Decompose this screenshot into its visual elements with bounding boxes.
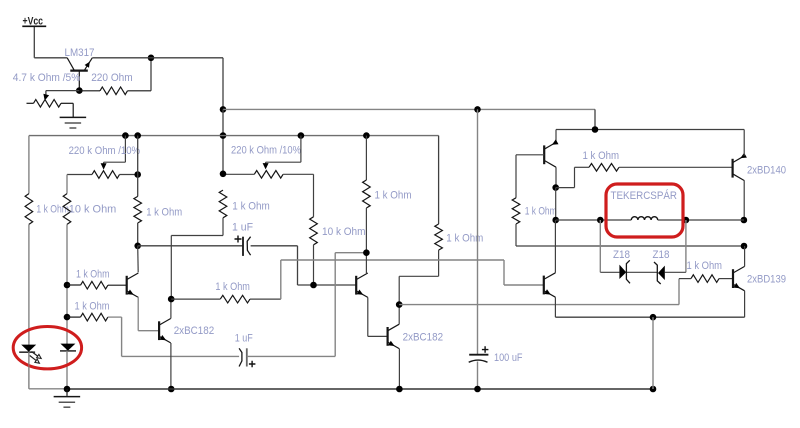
node B [363, 249, 370, 256]
node output rail junction [148, 55, 155, 62]
transistor Q6 BD139 NPN [732, 269, 734, 288]
wire y=246 rail C1 to Q3 base [138, 245, 243, 247]
wire Vcc to LM317 input [34, 57, 67, 59]
wire pot1 left to 10k [66, 175, 68, 194]
LED D1 light arrows [30, 352, 38, 361]
svg-text:10 k Ohm: 10 k Ohm [322, 226, 366, 238]
regulator U1 LM317 (transistor-style symbol) [70, 69, 88, 71]
node pot1 wiper tap [122, 132, 129, 139]
svg-text:1 k Ohm: 1 k Ohm [232, 200, 269, 212]
node R6 bottom / C1 node [134, 243, 141, 250]
wire coil rail [556, 219, 632, 221]
wire left bias rail y=135.6 [29, 135, 439, 137]
wire pot2 wiper arm [300, 136, 302, 163]
node Q7 collector node [552, 184, 559, 191]
wire R8 bottom jog to node A [171, 235, 223, 237]
wire ground rail [28, 343, 30, 345]
wire Q7 collector down [555, 167, 557, 187]
zener Z2 Z18 [658, 266, 665, 280]
node ground rail right end [650, 386, 657, 393]
svg-text:1 k Ohm: 1 k Ohm [583, 150, 620, 162]
resistor R5 10 k Ohm (x=67) [63, 194, 71, 225]
wire rail y=260 to Q8 base [281, 259, 504, 261]
svg-text:TEKERCSPÁR: TEKERCSPÁR [611, 189, 678, 202]
node y129 tap [592, 126, 599, 133]
resistor R16 1 k Ohm (BD140 base) [575, 166, 590, 168]
node x223 on rail y135 [220, 132, 227, 139]
svg-text:1 k Ohm: 1 k Ohm [146, 207, 182, 219]
wire emitter rail y=317.2 [555, 316, 744, 318]
resistor R10 1 k Ohm (x=366.4) [365, 136, 367, 180]
wire coil right [658, 219, 744, 221]
svg-text:1 k Ohm: 1 k Ohm [76, 268, 110, 280]
wire Q3 emitter to Q4 base [367, 297, 369, 336]
capacitor C1 1 uF [242, 237, 244, 256]
wire top rail [223, 108, 595, 110]
annotation red rounded rect TEKERCSPAR [606, 184, 683, 237]
wire Q8 collector up to coil rail [554, 220, 556, 273]
resistor R8 1 k Ohm (x=223) [219, 190, 227, 218]
transistor Q2 BC182 (second) [158, 321, 160, 340]
resistor R12 1 k Ohm (to Q1 base) [67, 284, 81, 286]
wire zener drop left [599, 220, 601, 272]
wire BD140 emitter up [743, 130, 745, 156]
wire 100uF from top rail [477, 109, 479, 354]
resistor R11 1 k Ohm (x=438.6) [435, 224, 443, 250]
svg-text:2xBD140: 2xBD140 [747, 165, 786, 177]
node Q2 emitter ground [168, 386, 175, 393]
wire y129 feed [556, 129, 744, 131]
wire BD140 collector down [743, 181, 745, 220]
svg-text:220 Ohm: 220 Ohm [91, 72, 133, 84]
resistor R9 10 k Ohm (x=313.5) [310, 217, 318, 245]
svg-text:220 k Ohm /10%: 220 k Ohm /10% [69, 145, 141, 157]
LED D1 [28, 344, 30, 352]
wire Q7 collector to coil rail [555, 188, 557, 220]
node coil left [597, 217, 604, 224]
wire Q7 base to R15 [516, 154, 544, 156]
wire Q4 emitter to ground [398, 349, 400, 389]
node bias rail right [741, 243, 748, 250]
svg-text:1 k Ohm: 1 k Ohm [215, 281, 250, 293]
svg-text:4.7 k Ohm /5%: 4.7 k Ohm /5% [13, 72, 81, 84]
potentiometer R3 220 k Ohm /10% [67, 174, 92, 176]
resistor R17 1 k Ohm (BD139 base) [679, 278, 691, 280]
zener Z1 Z18 [619, 265, 626, 279]
node R 1k tap x366 [363, 132, 370, 139]
node pot1 right end [134, 171, 141, 178]
potentiometer wiper arrow for R 4.7k [43, 94, 49, 101]
svg-text:1 k Ohm: 1 k Ohm [525, 205, 557, 217]
node A collector junction [168, 296, 175, 303]
node pot2 left end [220, 171, 227, 178]
wire R13 to C2 [121, 317, 123, 356]
svg-text:2xBD139: 2xBD139 [747, 273, 786, 285]
svg-text:1 uF: 1 uF [235, 333, 253, 345]
wire Q2 collector to node A [170, 299, 172, 318]
node 100uF tap on top rail [474, 106, 481, 113]
node pot2 wiper tap [298, 132, 305, 139]
wire pot1 wiper arm [124, 136, 126, 163]
capacitor C2 1 uF (second) [239, 348, 242, 366]
svg-text:1 uF: 1 uF [232, 221, 253, 233]
svg-text:2xBC182: 2xBC182 [174, 325, 215, 337]
svg-text:1 k Ohm: 1 k Ohm [75, 301, 110, 313]
annotation red ellipse around LEDs [13, 327, 81, 369]
pot1 wiper arrow [101, 163, 107, 169]
node ADJ junction [76, 87, 83, 94]
transistor Q3 BC182 (pair2 first) [355, 276, 357, 295]
node R9 bottom on Q3 base [310, 282, 317, 289]
wire 220 Ohm up to output rail [150, 58, 152, 91]
svg-text:2xBC182: 2xBC182 [403, 332, 444, 344]
wire C1 right to Q3 base corner [251, 245, 298, 247]
wire BD139 emitter down [744, 291, 746, 317]
resistor R15 1 k Ohm (x=516) [512, 198, 520, 224]
inductor L1 coil TEKERCSPAR [631, 217, 657, 220]
wire R14 up to y260 rail [280, 260, 282, 299]
wire zener drop right [685, 220, 687, 272]
wire x223 vertical to base rail [222, 109, 224, 173]
wire R6 bottom to Q1 collector [137, 246, 140, 273]
node Q4 emitter ground [396, 386, 403, 393]
node coil rail left [552, 217, 559, 224]
svg-text:Z18: Z18 [613, 249, 630, 261]
wire bias rail y=246 [516, 245, 744, 247]
resistor R2 220 Ohm [79, 90, 100, 92]
svg-text:220 k Ohm /10%: 220 k Ohm /10% [231, 145, 301, 157]
node emitter rail ground tap [650, 314, 657, 321]
potentiometer R7 220 k Ohm /10% (second) [223, 173, 254, 175]
wire Q7 emitter up [555, 130, 557, 143]
svg-text:1 k Ohm: 1 k Ohm [687, 260, 723, 272]
wire to R16 [556, 187, 575, 189]
wire C2 right up to Q3 collector node [247, 355, 335, 357]
wire Q3 base [298, 284, 357, 286]
resistor R14 1 k Ohm (node A to comparator) [171, 298, 220, 300]
ground G2 [66, 389, 68, 396]
wire LM317 output rail [92, 57, 223, 59]
resistor R4 1 k Ohm (x=28.9) [25, 194, 33, 225]
node ground tap LED rail [64, 386, 71, 393]
node BD140 collector coil rail [741, 217, 748, 224]
transistor Q5 BD140 PNP [731, 159, 733, 178]
node 100uF ground [474, 386, 481, 393]
node pot1 track tap [134, 132, 141, 139]
transistor Q1 BC182 (first) [126, 276, 128, 295]
node left rail R13 [64, 314, 71, 321]
svg-text:100 uF: 100 uF [494, 352, 523, 364]
pot2 wiper arrow [263, 163, 269, 169]
transistor Q8 driver NPN [543, 276, 545, 295]
node top distribution rail left end [220, 106, 227, 113]
svg-text:10 k Ohm: 10 k Ohm [69, 204, 117, 216]
wire Q3 collector to node B [365, 253, 367, 273]
wire Q4 collector up [398, 305, 400, 325]
svg-text:1 k Ohm: 1 k Ohm [375, 189, 412, 201]
svg-text:Z18: Z18 [653, 249, 670, 261]
LED D2 [66, 343, 68, 350]
potentiometer R1 4.7 k Ohm /5% [27, 102, 34, 104]
wire Q2 emitter to ground rail [170, 343, 172, 389]
wire drive rail y=304.6 [399, 304, 679, 306]
transistor Q7 driver PNP [543, 145, 545, 164]
svg-text:LM317: LM317 [65, 47, 95, 59]
wire zener rail [600, 271, 619, 273]
wire ground drop x=653 [652, 317, 654, 389]
wire 100uF to ground [477, 362, 479, 390]
wire Q8 emitter down [554, 297, 556, 317]
transistor Q4 BC182 (pair2 second) [387, 327, 389, 346]
capacitor C3 100 uF [469, 354, 488, 356]
ground G1 [60, 116, 87, 118]
node left rail R12 [64, 282, 71, 289]
resistor R6 1 k Ohm (x=137.7) [134, 196, 142, 223]
wire BD139 collector up [744, 246, 746, 266]
wire R11 bottom to Q4 collector node [399, 275, 438, 277]
wire +Vcc stem [33, 27, 35, 58]
wire x137.7 vertical [137, 136, 139, 197]
wire adj to wiper [46, 90, 79, 92]
node coil right [683, 217, 690, 224]
wire Q1 emitter to Q2 base [137, 297, 139, 331]
resistor R13 1 k Ohm (lower) [67, 316, 81, 318]
node Q4 collector [396, 301, 403, 308]
